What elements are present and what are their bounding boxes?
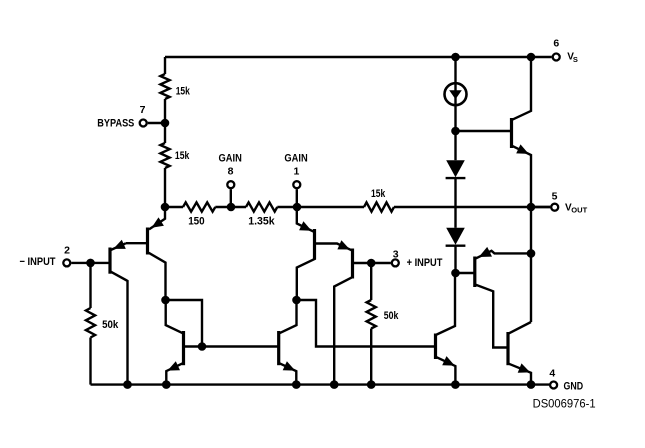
svg-text:GND: GND	[564, 381, 584, 393]
svg-text:5: 5	[552, 190, 558, 202]
svg-text:6: 6	[553, 37, 559, 49]
svg-text:150: 150	[188, 215, 205, 227]
svg-text:S: S	[573, 55, 578, 64]
svg-text:GAIN: GAIN	[284, 153, 307, 165]
svg-text:50k: 50k	[384, 310, 399, 322]
svg-text:BYPASS: BYPASS	[97, 117, 134, 129]
svg-text:+ INPUT: + INPUT	[407, 257, 443, 269]
svg-text:DS006976-1: DS006976-1	[533, 397, 596, 411]
svg-text:1: 1	[293, 166, 299, 178]
svg-text:− INPUT: − INPUT	[20, 256, 56, 268]
svg-text:GAIN: GAIN	[219, 153, 242, 165]
svg-text:1.35k: 1.35k	[248, 215, 275, 227]
svg-text:3: 3	[393, 249, 399, 261]
svg-text:2: 2	[64, 245, 70, 257]
svg-text:7: 7	[140, 104, 146, 116]
svg-text:15k: 15k	[175, 150, 190, 162]
svg-text:15k: 15k	[371, 188, 386, 200]
svg-text:8: 8	[228, 166, 234, 178]
svg-text:50k: 50k	[102, 319, 119, 331]
svg-text:OUT: OUT	[571, 208, 588, 215]
svg-text:15k: 15k	[176, 86, 191, 98]
svg-text:4: 4	[549, 368, 555, 380]
